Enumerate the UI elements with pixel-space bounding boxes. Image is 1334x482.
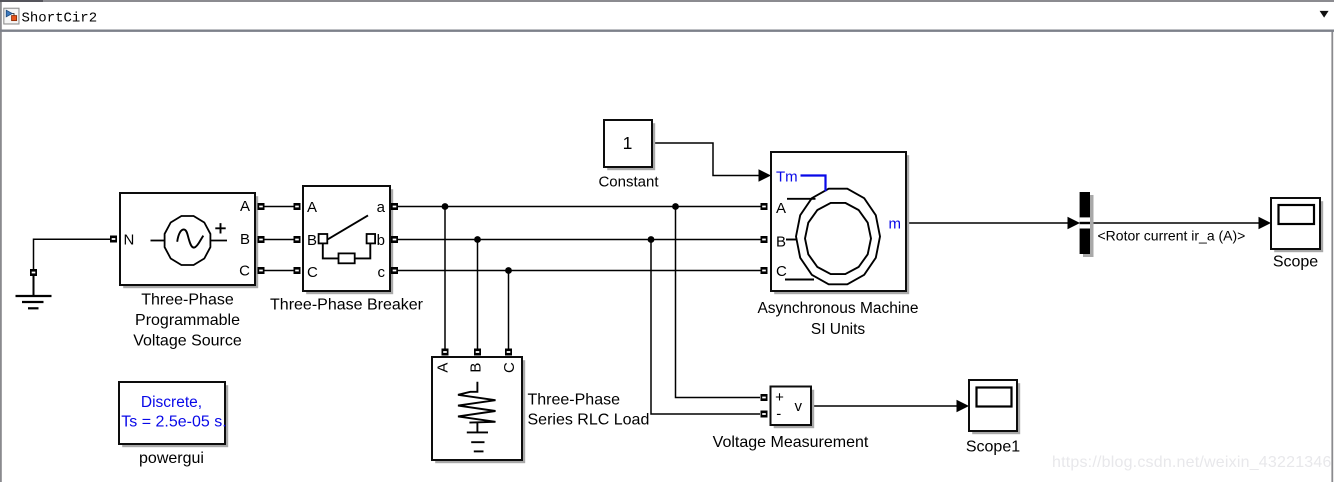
machine Tm blue line xyxy=(801,176,826,192)
wire through selector xyxy=(1080,222,1090,224)
breaker control box xyxy=(339,253,355,263)
breaker right contact square xyxy=(367,234,376,243)
machine C lead xyxy=(785,279,814,281)
svg-text:v: v xyxy=(794,398,802,415)
vm port minus input xyxy=(761,411,768,418)
scope screen xyxy=(1279,205,1315,224)
scope1 screen xyxy=(977,388,1012,407)
breaker port a output xyxy=(391,203,398,210)
wire phase c xyxy=(398,270,761,272)
voltage source icon circle xyxy=(165,216,211,265)
svg-text:c: c xyxy=(378,264,386,281)
machine B lead xyxy=(786,239,797,241)
window chrome: tab separator xyxy=(0,30,1334,32)
bus selector gap xyxy=(1080,217,1090,228)
breaker port B input xyxy=(294,236,301,243)
wire source C to breaker C xyxy=(265,270,294,272)
breaker port C input xyxy=(294,267,301,274)
breaker lower wire left xyxy=(323,244,339,259)
breaker left contact square xyxy=(319,234,328,243)
port A output xyxy=(258,203,265,210)
machine rotor circle xyxy=(805,203,871,274)
svg-text:B: B xyxy=(776,234,786,251)
junction a-VMplus xyxy=(672,203,679,210)
svg-text:Three-Phase: Three-Phase xyxy=(141,292,234,309)
voltage source sine wave xyxy=(177,230,203,248)
svg-text:Three-Phase: Three-Phase xyxy=(528,392,621,409)
svg-text:m: m xyxy=(889,216,902,233)
breaker block shadow xyxy=(306,189,393,294)
rlc load block shadow xyxy=(435,360,525,463)
svg-text:Discrete,: Discrete, xyxy=(141,394,202,411)
machine port A input xyxy=(761,203,768,210)
svg-text:-: - xyxy=(776,406,781,423)
powergui block shadow xyxy=(122,385,228,447)
wire a to load A xyxy=(444,207,446,349)
svg-text:C: C xyxy=(307,264,318,281)
breaker port b output xyxy=(391,236,398,243)
svg-text:Constant: Constant xyxy=(598,174,659,191)
svg-text:Voltage Measurement: Voltage Measurement xyxy=(713,434,869,451)
window chrome: top border xyxy=(0,0,1334,2)
svg-text:a: a xyxy=(377,199,386,216)
svg-text:Series RLC Load: Series RLC Load xyxy=(528,412,650,429)
svg-text:+: + xyxy=(775,389,784,406)
machine port B input xyxy=(761,236,768,243)
wire c to load C xyxy=(508,271,510,349)
wire m to selector xyxy=(907,222,1070,224)
svg-text:powergui: powergui xyxy=(139,450,204,467)
port C output xyxy=(258,267,265,274)
svg-text:C: C xyxy=(776,263,787,280)
svg-text:Ts = 2.5e-05 s.: Ts = 2.5e-05 s. xyxy=(121,413,226,430)
wire VM to Scope1 xyxy=(811,405,958,407)
svg-text:SI Units: SI Units xyxy=(811,321,866,338)
voltage measurement block shadow xyxy=(774,390,815,429)
machine stator circle xyxy=(796,189,880,285)
junction b-loadB xyxy=(474,236,481,243)
rlc port C top xyxy=(505,349,512,356)
svg-text:Three-Phase Breaker: Three-Phase Breaker xyxy=(270,297,424,314)
svg-text:C: C xyxy=(239,263,250,280)
rlc capacitor plates xyxy=(467,431,488,433)
ground symbol G1 xyxy=(16,276,52,309)
rlc resistor icon xyxy=(458,382,496,433)
junction a-loadA xyxy=(442,203,449,210)
svg-text:A: A xyxy=(776,200,786,217)
wire phase b xyxy=(398,239,761,241)
asynchronous machine block shadow xyxy=(774,155,909,294)
svg-text:ShortCir2: ShortCir2 xyxy=(22,10,98,26)
voltage source right stub xyxy=(211,240,227,242)
svg-text:B: B xyxy=(240,231,250,248)
arrowhead into selector xyxy=(1068,217,1081,229)
svg-text:Scope1: Scope1 xyxy=(966,438,1020,455)
scope block shadow xyxy=(1274,201,1323,252)
svg-text:C: C xyxy=(501,362,518,373)
svg-text:<Rotor current ir_a (A)>: <Rotor current ir_a (A)> xyxy=(1098,227,1246,243)
wire selector to Scope xyxy=(1090,222,1260,224)
wire b to VM minus xyxy=(651,240,760,415)
port N input xyxy=(110,236,117,243)
vm port plus input xyxy=(761,394,768,401)
svg-text:N: N xyxy=(124,232,135,249)
window chrome: right border xyxy=(1331,30,1333,482)
machine port C input xyxy=(761,267,768,274)
svg-text:https://blog.csdn.net/weixin_4: https://blog.csdn.net/weixin_43221346 xyxy=(1052,454,1332,471)
svg-text:B: B xyxy=(307,232,317,249)
machine A lead xyxy=(787,198,816,200)
scope1 block shadow xyxy=(972,383,1020,434)
window chrome: left border xyxy=(0,2,2,482)
svg-text:Scope: Scope xyxy=(1273,253,1318,270)
asynchronous machine block body xyxy=(771,152,906,291)
voltage source block shadow xyxy=(123,196,258,288)
arrowhead into Scope xyxy=(1259,217,1272,229)
voltage source plus sign xyxy=(215,223,225,233)
svg-text:b: b xyxy=(377,232,385,249)
svg-text:B: B xyxy=(468,363,485,373)
breaker port A input xyxy=(294,203,301,210)
wire source B to breaker B xyxy=(265,239,294,241)
svg-text:A: A xyxy=(307,199,317,216)
powergui block body xyxy=(119,382,225,444)
port B output xyxy=(258,236,265,243)
bus selector shadow xyxy=(1083,195,1094,257)
arrowhead into Tm xyxy=(759,169,772,181)
svg-text:Voltage Source: Voltage Source xyxy=(133,332,242,349)
ground port xyxy=(30,269,37,276)
rlc port B top xyxy=(474,349,481,356)
svg-text:A: A xyxy=(435,363,452,373)
constant block body xyxy=(604,120,652,167)
svg-text:Asynchronous Machine: Asynchronous Machine xyxy=(757,300,918,317)
svg-text:A: A xyxy=(240,198,250,215)
voltage source left stub xyxy=(151,240,165,242)
constant block shadow xyxy=(607,123,655,170)
tab dropdown arrow xyxy=(1320,11,1329,18)
junction b-VMminus xyxy=(648,236,655,243)
wire Constant to Tm xyxy=(652,143,759,176)
wire phase a xyxy=(398,206,761,208)
svg-text:Programmable: Programmable xyxy=(135,312,240,329)
wire ground to N xyxy=(34,239,111,269)
svg-text:1: 1 xyxy=(623,133,633,153)
voltage measurement block body xyxy=(771,387,812,426)
bus selector bar xyxy=(1080,192,1090,254)
rlc port A top xyxy=(442,349,449,356)
breaker lower wire right xyxy=(355,244,371,259)
wire a to VM plus xyxy=(676,207,761,398)
voltage source block body xyxy=(120,193,255,285)
scope block body xyxy=(1271,198,1320,249)
wire source A to breaker A xyxy=(265,206,294,208)
simulink model icon xyxy=(4,8,19,24)
junction c-loadC xyxy=(505,267,512,274)
scope1 block body xyxy=(969,380,1017,431)
rlc load block body xyxy=(432,357,522,460)
breaker port c output xyxy=(391,267,398,274)
breaker block body xyxy=(303,186,390,291)
arrowhead into Scope1 xyxy=(957,400,970,412)
wire b to load B xyxy=(477,240,479,349)
breaker switch arm xyxy=(328,215,368,239)
svg-text:Tm: Tm xyxy=(776,169,798,186)
